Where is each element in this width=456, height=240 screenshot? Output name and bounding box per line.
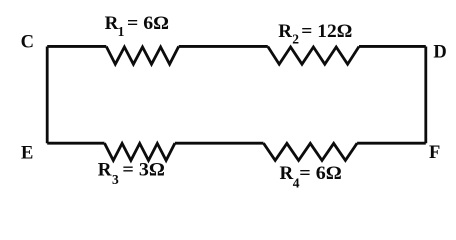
resistor R4: [264, 143, 358, 160]
svg-text:1: 1: [118, 24, 125, 39]
svg-text:F: F: [429, 143, 440, 163]
wire top segment C to R1: [47, 45, 106, 48]
svg-text:R: R: [280, 163, 294, 184]
svg-text:E: E: [21, 144, 33, 164]
resistor R3: [105, 143, 175, 160]
svg-text:= 12Ω: = 12Ω: [301, 21, 352, 42]
svg-text:= 3Ω: = 3Ω: [122, 159, 164, 180]
svg-text:= 6Ω: = 6Ω: [127, 13, 169, 34]
svg-text:R: R: [98, 159, 112, 180]
svg-text:R: R: [105, 13, 119, 34]
label R4 = 6 ohm: [280, 163, 342, 190]
svg-text:= 6Ω: = 6Ω: [299, 163, 342, 184]
wire bottom segment E to R3: [47, 142, 104, 145]
wire right vertical D to F: [424, 46, 427, 143]
svg-text:3: 3: [112, 172, 119, 187]
label R2 = 12 ohm: [278, 21, 352, 47]
wire bottom segment R3 to R4: [175, 142, 264, 145]
svg-text:D: D: [433, 43, 446, 63]
wire left vertical C to E: [46, 46, 49, 143]
resistor R1: [106, 46, 178, 64]
wire bottom segment R4 to F: [357, 142, 426, 145]
resistor R2: [268, 46, 359, 64]
svg-text:2: 2: [292, 32, 299, 47]
svg-text:R: R: [278, 21, 292, 42]
wire top segment R2 to D: [359, 45, 426, 48]
label R3 = 3 ohm: [98, 159, 165, 187]
svg-text:C: C: [21, 33, 34, 53]
label R1 = 6 ohm: [105, 13, 169, 39]
wire top segment R1 to R2: [179, 45, 268, 48]
